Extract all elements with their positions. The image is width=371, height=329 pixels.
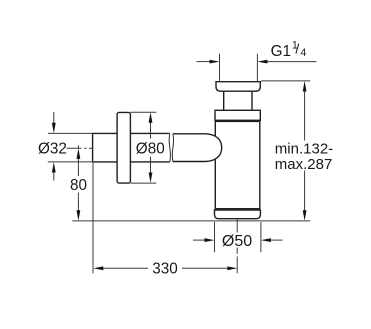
- top ring of body: [215, 110, 260, 120]
- horn joint wavy edge: [172, 134, 173, 162]
- svg-text:80: 80: [70, 177, 87, 194]
- svg-text:Ø32: Ø32: [38, 141, 67, 158]
- top flange under thread: [216, 82, 260, 92]
- bottom cap of body: [215, 210, 261, 219]
- wall pipe (horizontal tube): [93, 133, 170, 162]
- diameter 50 left arrow: [193, 239, 205, 241]
- svg-text:Ø80: Ø80: [136, 140, 165, 157]
- min/max vertical dimension line with arrows: [304, 92, 306, 211]
- G1 1/4 dimension line right tail with arrow: [267, 61, 316, 63]
- trap body (cup): [215, 121, 259, 208]
- G1 1/4 dimension extension lines: [220, 54, 258, 82]
- G1 1/4 dimension line left tail with arrow: [197, 61, 211, 63]
- svg-text:/: /: [295, 41, 299, 57]
- 330 dimension line with arrows: [103, 267, 227, 269]
- label G1 1/4: [271, 40, 307, 61]
- svg-text:G1: G1: [271, 43, 291, 60]
- diameter 50 extension lines: [215, 222, 261, 252]
- trap axis center line below cap: [236, 219, 238, 273]
- 330 left extension line (pipe end extended down): [92, 162, 94, 274]
- diameter 32 extension lines (pipe edges extended left): [48, 133, 93, 162]
- escutcheon flange on wall pipe: [117, 112, 130, 183]
- min/max dimension extension lines: [261, 80, 310, 82]
- neck between flange and ring: [224, 91, 252, 110]
- diameter 50 right arrow: [271, 239, 283, 241]
- svg-text:Ø50: Ø50: [222, 233, 252, 250]
- diameter 32 top arrow: [53, 112, 55, 124]
- diameter 32 leader and pipe center line: [67, 147, 93, 149]
- svg-text:330: 330: [152, 260, 178, 277]
- diameter 80 dimension line with arrows: [150, 123, 152, 173]
- wall pipe end joint wavy edge: [169, 134, 170, 162]
- svg-text:4: 4: [300, 47, 306, 59]
- inlet horn from pipe to body: [173, 134, 222, 162]
- diameter 32 bottom arrow: [53, 172, 55, 181]
- 80 dimension line (pipe axis to bottom): [77, 145, 79, 211]
- diameter 80 dimension extension lines: [130, 112, 156, 183]
- svg-text:max.287: max.287: [275, 156, 333, 173]
